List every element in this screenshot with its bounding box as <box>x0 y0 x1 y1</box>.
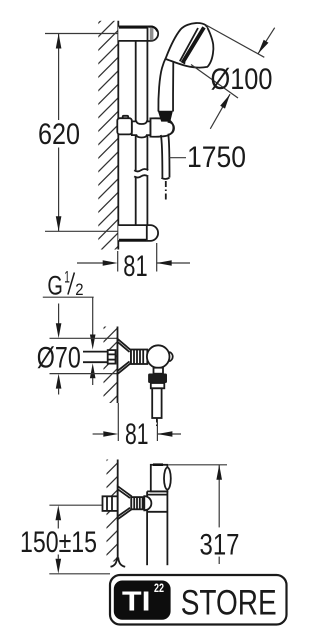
svg-text:TI: TI <box>122 585 151 616</box>
svg-text:317: 317 <box>200 528 240 561</box>
svg-text:81: 81 <box>123 250 147 283</box>
svg-text:G: G <box>47 271 63 301</box>
svg-text:1750: 1750 <box>187 141 246 174</box>
svg-text:1: 1 <box>64 268 70 287</box>
svg-text:Ø100: Ø100 <box>211 63 273 96</box>
svg-text:150±15: 150±15 <box>20 526 97 559</box>
svg-text:Ø70: Ø70 <box>37 341 81 374</box>
svg-text:2: 2 <box>75 280 83 299</box>
svg-text:STORE: STORE <box>181 584 277 623</box>
svg-text:620: 620 <box>38 118 80 151</box>
svg-text:22: 22 <box>154 583 164 595</box>
svg-text:81: 81 <box>125 418 149 451</box>
